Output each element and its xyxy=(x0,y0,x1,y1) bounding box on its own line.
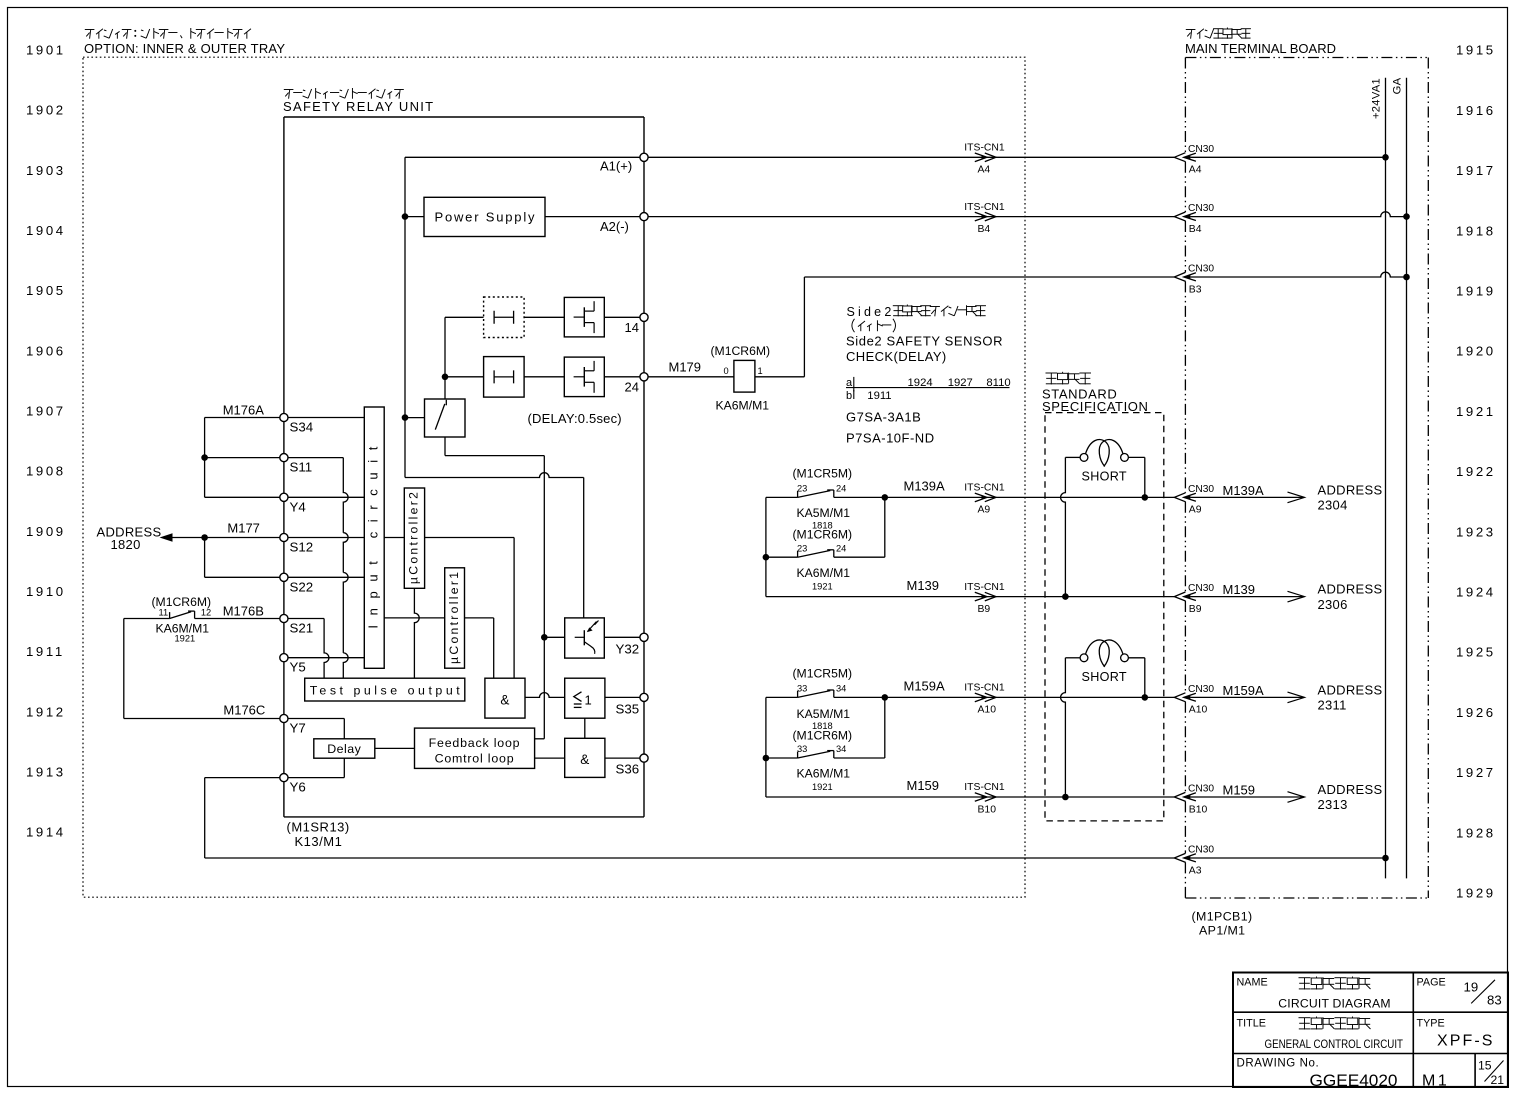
svg-text:B4: B4 xyxy=(978,224,991,235)
svg-text:KA5M/M1: KA5M/M1 xyxy=(797,506,851,520)
terminal A1(+) xyxy=(640,153,648,161)
svg-text:CN30: CN30 xyxy=(1188,784,1214,795)
wire M176A to S34 xyxy=(205,417,280,419)
svg-text:M176A: M176A xyxy=(223,403,265,418)
title block frame xyxy=(1233,973,1508,1088)
svg-text:XPF-S: XPF-S xyxy=(1437,1033,1495,1050)
terminal Y4 xyxy=(280,493,288,501)
svg-text:2306: 2306 xyxy=(1318,597,1348,612)
svg-text:1: 1 xyxy=(585,693,592,708)
wire OR gate to AND2 xyxy=(584,718,586,738)
svg-text:24: 24 xyxy=(836,484,846,494)
svg-text:KA6M/M1: KA6M/M1 xyxy=(797,767,851,781)
wire M176C to Y7 xyxy=(124,718,280,720)
svg-text:(M1CR6M): (M1CR6M) xyxy=(793,528,853,542)
svg-text:1921: 1921 xyxy=(812,782,833,792)
option block label JP: option inner outer tray xyxy=(85,28,251,39)
junction M177 link xyxy=(201,534,208,541)
svg-text:TITLE: TITLE xyxy=(1237,1018,1266,1030)
svg-text:G7SA-3A1B: G7SA-3A1B xyxy=(846,410,921,425)
svg-text:A10: A10 xyxy=(978,705,997,716)
svg-text:M139: M139 xyxy=(907,578,940,593)
feedback loop control box xyxy=(415,728,535,768)
svg-text:1918: 1918 xyxy=(1456,223,1496,238)
wire S12 row to input circuit and uController2 xyxy=(288,537,364,539)
terminal S36 xyxy=(640,754,648,762)
svg-text:b: b xyxy=(846,390,852,402)
svg-text:CN30: CN30 xyxy=(1188,845,1214,856)
svg-text:1929: 1929 xyxy=(1456,886,1496,901)
svg-text:8110: 8110 xyxy=(986,377,1010,389)
junction SHORT J2 right lead on M159A xyxy=(1142,694,1149,701)
SHORT jumper J1 symbol xyxy=(1080,454,1088,462)
svg-text:Feedback loop: Feedback loop xyxy=(429,736,521,750)
junction SHORT J1 left lead on M139 xyxy=(1062,593,1069,600)
svg-text:1926: 1926 xyxy=(1456,705,1496,720)
relay contact M1CR6M 11-12 on M176B row xyxy=(124,611,280,618)
svg-text:19: 19 xyxy=(1464,980,1479,995)
svg-text:1906: 1906 xyxy=(26,343,66,358)
connector CN30 pin A4 xyxy=(1174,153,1185,162)
junction bus to power supply xyxy=(402,213,409,220)
svg-text:ITS-CN1: ITS-CN1 xyxy=(964,782,1005,793)
wire Y7 row to delay link xyxy=(288,718,344,720)
wire A4 row terminal A1 to CN30 with ITS-CN1 arrow xyxy=(648,143,1174,176)
svg-text:1927: 1927 xyxy=(1456,765,1496,780)
wire bus to power supply left pin xyxy=(405,216,424,218)
SHORT J1 left lead to M139 row (hops M139A) xyxy=(1061,457,1081,596)
terminal A2(-) xyxy=(640,213,648,221)
wire internal bus to Y32 driver (hops feedback chain) xyxy=(405,473,584,618)
svg-text:1908: 1908 xyxy=(26,464,66,479)
svg-text:23: 23 xyxy=(797,484,807,494)
terminal Y32 xyxy=(640,633,648,641)
svg-text:TYPE: TYPE xyxy=(1417,1018,1445,1030)
terminal Y6 xyxy=(280,774,288,782)
contact M1CR6M 23-24 KA6M/M1 1921 labels xyxy=(793,528,853,592)
SHORT jumper J2 symbol xyxy=(1080,654,1088,662)
svg-text:ADDRESS: ADDRESS xyxy=(1318,782,1383,797)
OR gate G2 label <=1 xyxy=(574,692,592,708)
svg-text:0: 0 xyxy=(724,366,729,376)
svg-text:1922: 1922 xyxy=(1456,464,1496,479)
wire AND1 to OR gate (hops feedback chain) xyxy=(525,693,565,698)
svg-text:1907: 1907 xyxy=(26,404,66,419)
test pulse output box xyxy=(305,678,465,701)
SHORT J1 right lead to M139A row xyxy=(1128,457,1144,497)
svg-text:33: 33 xyxy=(797,744,807,754)
wire Y4 row xyxy=(205,496,280,498)
wire A2 row power supply right pin to terminal A2 xyxy=(545,216,640,218)
microcontroller U2 box xyxy=(404,488,424,588)
svg-text:1914: 1914 xyxy=(26,825,66,840)
svg-text:A10: A10 xyxy=(1189,705,1208,716)
svg-text:M176B: M176B xyxy=(223,604,264,619)
junction A3 on +24VA1 xyxy=(1382,855,1389,862)
svg-text:S36: S36 xyxy=(616,762,640,777)
svg-text:33: 33 xyxy=(797,684,807,694)
svg-text:CN30: CN30 xyxy=(1188,484,1214,495)
terminal Y7 xyxy=(280,714,288,722)
svg-text:A4: A4 xyxy=(1189,165,1202,176)
terminal board designator (M1PCB1) AP1/M1 xyxy=(1192,910,1253,938)
svg-text:12: 12 xyxy=(201,608,211,618)
wire B4 row terminal A2 to CN30 with ITS-CN1 arrow xyxy=(648,202,1174,235)
svg-text:M179: M179 xyxy=(669,360,702,375)
svg-text:KA5M/M1: KA5M/M1 xyxy=(797,707,851,721)
svg-text:1911: 1911 xyxy=(867,390,891,402)
svg-text:1913: 1913 xyxy=(26,765,66,780)
svg-text:CN30: CN30 xyxy=(1188,684,1214,695)
svg-text:P7SA-10F-ND: P7SA-10F-ND xyxy=(846,431,935,446)
safety relay unit designator (M1SR13) K13/M1 xyxy=(287,820,350,850)
svg-text:1905: 1905 xyxy=(26,283,66,298)
svg-text:M139A: M139A xyxy=(1223,483,1265,498)
svg-text:B10: B10 xyxy=(978,804,997,815)
wire M177 to S12 with ADDRESS 1820 arrow xyxy=(160,533,280,542)
svg-text:OPTION: INNER & OUTER TRAY: OPTION: INNER & OUTER TRAY xyxy=(84,41,285,56)
wire A4 to +24VA1 xyxy=(1191,156,1386,158)
svg-text:1921: 1921 xyxy=(175,634,196,644)
svg-text:14: 14 xyxy=(625,320,639,335)
title block DRAWING No cell GGEE4020 xyxy=(1237,1058,1398,1091)
vertical feedback chain x=544.3 xyxy=(543,456,545,739)
svg-text:34: 34 xyxy=(836,744,846,754)
wire Y5 to input circuit xyxy=(288,657,364,659)
power rail +24VA1 vertical xyxy=(1385,78,1387,879)
svg-text:1903: 1903 xyxy=(26,163,66,178)
svg-text:SPECIFICATION: SPECIFICATION xyxy=(1042,399,1149,414)
svg-text:1921: 1921 xyxy=(812,581,833,591)
junction S11 link xyxy=(201,454,208,461)
svg-text:Side2: Side2 xyxy=(847,305,895,319)
wire bus to switch left pin xyxy=(405,417,425,419)
svg-text:2304: 2304 xyxy=(1318,498,1348,513)
coil pin table rows a/b xyxy=(846,377,1010,402)
svg-text:CN30: CN30 xyxy=(1188,264,1214,275)
wire terminal 24 to relay coil M179 net xyxy=(648,376,734,378)
wire A3 to +24VA1 xyxy=(1191,857,1386,859)
wire Y32 driver to terminal Y32 xyxy=(604,636,640,638)
svg-text:1904: 1904 xyxy=(26,223,66,238)
svg-text:(M1CR5M): (M1CR5M) xyxy=(793,667,853,681)
svg-text:ITS-CN1: ITS-CN1 xyxy=(964,202,1005,213)
svg-text:Comtrol loop: Comtrol loop xyxy=(435,752,515,766)
svg-text:1916: 1916 xyxy=(1456,103,1496,118)
svg-text:1917: 1917 xyxy=(1456,163,1496,178)
title block sheet 15/21 xyxy=(1478,1059,1504,1088)
svg-text:Y32: Y32 xyxy=(616,642,640,657)
junction B4 on GA xyxy=(1403,213,1410,220)
wire feedback box to AND2 xyxy=(535,757,565,759)
contact group M1CR5M 33-34 KA5M/M1 1818 (M159A) xyxy=(765,697,767,797)
svg-text:CN30: CN30 xyxy=(1188,203,1214,214)
svg-text:S12: S12 xyxy=(290,540,314,555)
svg-text:M159: M159 xyxy=(907,778,940,793)
svg-text:AP1/M1: AP1/M1 xyxy=(1199,924,1245,938)
title block TITLE cell xyxy=(1237,1017,1404,1052)
svg-text:Y5: Y5 xyxy=(290,660,306,675)
svg-text:PAGE: PAGE xyxy=(1417,977,1446,989)
svg-text:(DELAY:0.5sec): (DELAY:0.5sec) xyxy=(528,411,622,426)
svg-text:1902: 1902 xyxy=(26,103,66,118)
AND gate G1 box xyxy=(485,678,525,718)
svg-text:M159A: M159A xyxy=(1223,683,1265,698)
svg-text:S11: S11 xyxy=(290,460,313,475)
safety relay unit label JP xyxy=(284,88,404,99)
junction B3 on GA xyxy=(1403,274,1410,281)
svg-text:1919: 1919 xyxy=(1456,284,1496,299)
svg-text:M177: M177 xyxy=(227,521,260,536)
svg-text:(M1CR6M): (M1CR6M) xyxy=(711,344,771,358)
svg-text:1924: 1924 xyxy=(908,377,933,389)
svg-text:(M1PCB1): (M1PCB1) xyxy=(1192,910,1253,924)
delay block box on Y7-Y6 link xyxy=(314,719,375,778)
wire S22 row xyxy=(205,576,280,578)
terminal S34 xyxy=(280,413,288,421)
svg-text:M176C: M176C xyxy=(223,703,265,718)
svg-text:1820: 1820 xyxy=(111,537,141,552)
svg-text:1927: 1927 xyxy=(948,377,973,389)
svg-text:K13/M1: K13/M1 xyxy=(295,834,343,849)
grid reference numbers left 1901-1914 xyxy=(26,43,66,840)
svg-text:ITS-CN1: ITS-CN1 xyxy=(964,143,1005,154)
svg-text:S34: S34 xyxy=(290,420,314,435)
svg-text:S21: S21 xyxy=(290,621,314,636)
OR gate G2 box (>=1) xyxy=(565,678,605,718)
terminal S11 xyxy=(280,454,288,462)
svg-text:MAIN TERMINAL BOARD: MAIN TERMINAL BOARD xyxy=(1185,41,1336,56)
SHORT J2 left lead to M159 row (hops M159A) xyxy=(1061,658,1081,797)
wire net A3 from Y6 to CN30 A3 xyxy=(205,857,1175,859)
terminal Y5 xyxy=(280,654,288,662)
connector CN30 pin B3 xyxy=(1174,272,1185,281)
AND gate G3 box xyxy=(565,738,605,777)
svg-text:KA6M/M1: KA6M/M1 xyxy=(716,399,770,413)
connector CN30 pin A10 / wire to ADDRESS 2311 / label M159A xyxy=(1174,693,1185,702)
wire OR gate to terminal S35 xyxy=(605,696,640,698)
svg-text:1915: 1915 xyxy=(1456,43,1496,58)
svg-text:SHORT: SHORT xyxy=(1082,670,1127,684)
vertical link S12-S22 xyxy=(204,538,206,578)
wire input box to output transistor row 24 xyxy=(524,376,564,378)
wire S11 row xyxy=(205,457,280,459)
terminal S21 xyxy=(280,614,288,622)
svg-text:Y6: Y6 xyxy=(290,780,306,795)
svg-text:2313: 2313 xyxy=(1318,797,1348,812)
wire input circuit to AND1 (row S12 through controllers) xyxy=(384,538,514,679)
svg-text:(M1CR6M): (M1CR6M) xyxy=(793,728,853,742)
wire switch bottom to feedback chain xyxy=(445,437,544,456)
wire B3 row to CN30 xyxy=(804,276,1174,278)
annotation JP: (delay) xyxy=(852,319,896,332)
svg-text:A1(+): A1(+) xyxy=(600,159,632,174)
B3 riser vertical xyxy=(803,277,805,377)
svg-text:24: 24 xyxy=(625,380,639,395)
standard specification labels EN xyxy=(1042,387,1149,414)
svg-text:ADDRESS: ADDRESS xyxy=(1318,682,1383,697)
wire input box to output transistor row 14 xyxy=(524,316,564,318)
svg-text:KA6M/M1: KA6M/M1 xyxy=(797,566,851,580)
svg-text:CN30: CN30 xyxy=(1188,144,1214,155)
svg-text:1924: 1924 xyxy=(1456,585,1496,600)
relay coil KA6M/M1 box xyxy=(734,360,755,392)
wire transistor to terminal 14 xyxy=(604,316,640,318)
wire Y4 to input circuit xyxy=(288,496,364,498)
junction SHORT J1 right lead on M139A xyxy=(1142,494,1149,501)
wire transistor to terminal 24 xyxy=(604,376,640,378)
optocoupler input K14 dotted box with contact symbol xyxy=(484,297,524,338)
main terminal board label JP xyxy=(1186,28,1251,39)
wire M139A row / ITS-CN1 A9 xyxy=(885,496,1175,498)
svg-text:SAFETY RELAY UNIT: SAFETY RELAY UNIT xyxy=(283,99,434,114)
svg-text:B9: B9 xyxy=(1189,604,1202,615)
svg-text:11: 11 xyxy=(159,608,169,618)
wire delay to feedback box xyxy=(375,747,415,749)
svg-text:B4: B4 xyxy=(1189,224,1202,235)
svg-text:A9: A9 xyxy=(1189,505,1202,516)
ground rail GA vertical xyxy=(1406,78,1408,879)
svg-text:1928: 1928 xyxy=(1456,825,1496,840)
svg-text:(M1CR5M): (M1CR5M) xyxy=(793,467,853,481)
wire coil to B3 riser xyxy=(755,376,805,378)
optocoupler input K24 box with contact symbol xyxy=(484,357,524,398)
svg-text:34: 34 xyxy=(836,684,846,694)
monitor switch contact symbol xyxy=(435,400,446,430)
Y32 driver transistor symbol xyxy=(575,621,599,654)
wire M159A row / ITS-CN1 A10 xyxy=(885,696,1175,698)
connector CN30 pin A9 / wire to ADDRESS 2304 / label M139A xyxy=(1174,493,1185,502)
terminal S22 xyxy=(280,573,288,581)
standard specification label JP xyxy=(1046,372,1092,385)
svg-text:SHORT: SHORT xyxy=(1082,470,1127,484)
wire feedback box to feedback chain xyxy=(535,738,545,740)
junction SHORT J2 left lead on M159 xyxy=(1062,794,1069,801)
svg-text:S35: S35 xyxy=(616,702,640,717)
svg-text:1912: 1912 xyxy=(26,704,66,719)
wire input circuit to AND1 lower branch xyxy=(384,618,494,678)
wire B3 to GA (hops +24VA1) xyxy=(1191,272,1407,277)
wire S22 to input circuit xyxy=(288,576,364,578)
svg-text:A4: A4 xyxy=(978,165,991,176)
power supply unit PS1 box xyxy=(424,197,545,236)
svg-text:83: 83 xyxy=(1487,993,1502,1008)
SHORT J2 right lead to M159A row xyxy=(1128,658,1144,698)
svg-text:Side2 SAFETY SENSOR: Side2 SAFETY SENSOR xyxy=(846,334,1003,349)
svg-text:M1: M1 xyxy=(1422,1073,1449,1090)
svg-text:2311: 2311 xyxy=(1318,698,1347,713)
svg-text:B9: B9 xyxy=(978,604,991,615)
output transistor box Q14 xyxy=(564,297,604,337)
svg-text:23: 23 xyxy=(797,543,807,553)
vertical link M176B to M176C xyxy=(123,619,125,719)
svg-text:M139: M139 xyxy=(1223,582,1256,597)
bus vertical x=445 rows 14-24 to switch xyxy=(444,317,446,399)
svg-text:Y4: Y4 xyxy=(290,500,306,515)
svg-text:24: 24 xyxy=(836,543,846,553)
svg-text:ADDRESS: ADDRESS xyxy=(1318,482,1383,497)
svg-text:CN30: CN30 xyxy=(1188,583,1214,594)
title block TYPE cell XPF-S xyxy=(1417,1018,1495,1050)
svg-text:1925: 1925 xyxy=(1456,645,1496,660)
wire row 24 from bus to input box xyxy=(445,376,484,378)
svg-text:µController2: µController2 xyxy=(407,492,421,584)
svg-text:A3: A3 xyxy=(1189,865,1202,876)
svg-text:+24VA1: +24VA1 xyxy=(1371,78,1383,119)
svg-text:GA: GA xyxy=(1392,77,1404,94)
connector CN30 pin B4 xyxy=(1174,212,1185,221)
main terminal board chain-line boundary box (dash-dot-dot) xyxy=(1185,58,1428,899)
svg-text:CHECK(DELAY): CHECK(DELAY) xyxy=(846,349,947,364)
label ADDRESS 1820 xyxy=(97,525,162,553)
svg-text:ITS-CN1: ITS-CN1 xyxy=(964,683,1005,694)
svg-text:M159: M159 xyxy=(1223,783,1256,798)
junction A4 on +24VA1 xyxy=(1382,154,1389,161)
wire uController2 to test pulse output (hops) xyxy=(414,588,419,678)
svg-text:1920: 1920 xyxy=(1456,344,1496,359)
wire M159 row / ITS-CN1 B10 xyxy=(766,796,1174,798)
svg-text:S22: S22 xyxy=(290,580,314,595)
svg-text:µController1: µController1 xyxy=(447,572,461,664)
svg-text:Test pulse output: Test pulse output xyxy=(310,684,461,698)
terminal S35 xyxy=(640,693,648,701)
input circuit block box xyxy=(364,407,384,668)
svg-text:M159A: M159A xyxy=(904,679,946,694)
svg-text:B10: B10 xyxy=(1189,804,1208,815)
svg-text:A2(-): A2(-) xyxy=(600,219,629,234)
svg-text:DRAWING No.: DRAWING No. xyxy=(1237,1058,1320,1070)
Y32 driver transistor box xyxy=(565,618,605,658)
wire AND2 to terminal S36 xyxy=(605,757,640,759)
svg-text:GENERAL CONTROL CIRCUIT: GENERAL CONTROL CIRCUIT xyxy=(1265,1037,1404,1051)
svg-text:1921: 1921 xyxy=(1456,404,1496,419)
microcontroller U1 box xyxy=(445,568,465,668)
connector CN30 pin A3 xyxy=(1174,853,1185,862)
svg-text:ITS-CN1: ITS-CN1 xyxy=(964,483,1005,494)
wire A1 row from internal bus to terminal A1 xyxy=(405,156,640,158)
wire M139 row / ITS-CN1 B9 xyxy=(766,596,1174,598)
svg-text:15: 15 xyxy=(1478,1059,1492,1073)
wire row 14 from bus x=445 to input box xyxy=(445,316,484,318)
annotation JP: Side2 safety photoelectric sensor check xyxy=(847,305,986,320)
title block PAGE cell 19/83 xyxy=(1417,977,1502,1008)
svg-text:ADDRESS: ADDRESS xyxy=(1318,582,1383,597)
contact group M1CR5M 23-24 KA5M/M1 1818 (M139A) xyxy=(765,497,767,596)
title block NAME cell xyxy=(1237,977,1391,1011)
grid reference numbers right 1915-1929 xyxy=(1456,43,1496,901)
option block dotted boundary box xyxy=(83,57,1025,897)
svg-text:B3: B3 xyxy=(1189,284,1202,295)
svg-text:A9: A9 xyxy=(978,505,991,516)
terminal 14 xyxy=(640,313,648,321)
contact M1CR6M 33-34 KA6M/M1 1921 labels xyxy=(793,728,853,792)
wire S11 to test pulse chain xyxy=(288,458,348,679)
svg-text:&: & xyxy=(580,752,589,767)
wire S21 to test pulse output xyxy=(288,619,329,679)
svg-text:M139A: M139A xyxy=(904,479,946,494)
svg-text:1901: 1901 xyxy=(26,43,66,58)
junction feedback chain to Y32 driver xyxy=(541,634,548,641)
vertical link S34-S11-Y4 xyxy=(204,418,206,498)
svg-text:1923: 1923 xyxy=(1456,524,1496,539)
terminal S12 xyxy=(280,533,288,541)
svg-text:1910: 1910 xyxy=(26,584,66,599)
internal bus vertical x=405 xyxy=(404,157,406,477)
safety relay unit U1 boundary box xyxy=(284,117,644,817)
wire Y6 row to A3 net xyxy=(205,778,345,858)
svg-text:ITS-CN1: ITS-CN1 xyxy=(964,582,1005,593)
wire B4 to GA (hops +24VA1) xyxy=(1191,212,1407,217)
